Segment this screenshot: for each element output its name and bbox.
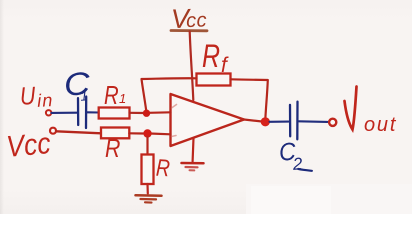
wire output stub — [244, 120, 262, 122]
svg-text:1: 1 — [119, 91, 126, 106]
wire R to node B — [129, 132, 143, 134]
node VCC label left — [5, 126, 52, 164]
VCC power bar symbol — [171, 29, 207, 32]
resistor R label below — [105, 134, 120, 164]
capacitor C1 — [78, 97, 86, 129]
wire input stub bottom — [150, 132, 171, 135]
resistor R1 label — [104, 81, 126, 110]
node OUT junction — [261, 117, 270, 126]
resistor Rf — [197, 74, 231, 86]
svg-text:U: U — [19, 81, 36, 110]
ground R2 stem — [146, 184, 149, 194]
svg-text:R: R — [105, 134, 120, 164]
svg-text:cc: cc — [186, 9, 208, 32]
svg-text:out: out — [364, 114, 397, 136]
wire feedback left — [142, 78, 197, 110]
terminal Uin — [46, 110, 51, 115]
capacitor C2 — [290, 102, 298, 140]
terminal VCC — [50, 128, 56, 134]
wire VCC to R — [56, 131, 101, 133]
resistor R1 — [99, 108, 130, 119]
wire Uin to C1 — [52, 112, 77, 114]
op-amp U1 — [171, 94, 245, 146]
terminal Vout — [329, 119, 336, 126]
ground op-amp — [182, 163, 204, 170]
wire input stub top — [149, 111, 171, 114]
svg-text:in: in — [37, 90, 54, 111]
wire node B down — [146, 137, 148, 155]
wire C1 to R1 — [87, 111, 99, 113]
node Vout label — [345, 87, 398, 137]
ground R2 — [136, 195, 162, 202]
capacitor C1 label — [63, 66, 92, 105]
svg-text:Vcc: Vcc — [5, 126, 52, 164]
resistor R2 label — [155, 154, 171, 182]
svg-text:R: R — [155, 154, 171, 182]
capacitor C2 label — [278, 137, 312, 175]
wire OUT to C2 — [270, 121, 289, 123]
svg-text:R: R — [202, 39, 220, 75]
svg-text:2: 2 — [291, 154, 303, 174]
wire VCC stem to op-amp top — [190, 32, 194, 101]
VCC top label — [171, 3, 208, 34]
wire feedback right — [231, 79, 268, 118]
resistor Rf label — [202, 39, 229, 77]
ground op-amp stem — [192, 138, 195, 162]
wire R1 to node A — [130, 112, 145, 114]
svg-text:R: R — [104, 81, 119, 110]
node B junction — [143, 129, 151, 137]
resistor R2 (bias to ground) — [142, 155, 154, 185]
wire C2 to Vout terminal — [299, 120, 328, 123]
node Uin label — [19, 80, 54, 111]
node A junction — [143, 110, 150, 117]
resistor R (series) — [101, 128, 129, 139]
